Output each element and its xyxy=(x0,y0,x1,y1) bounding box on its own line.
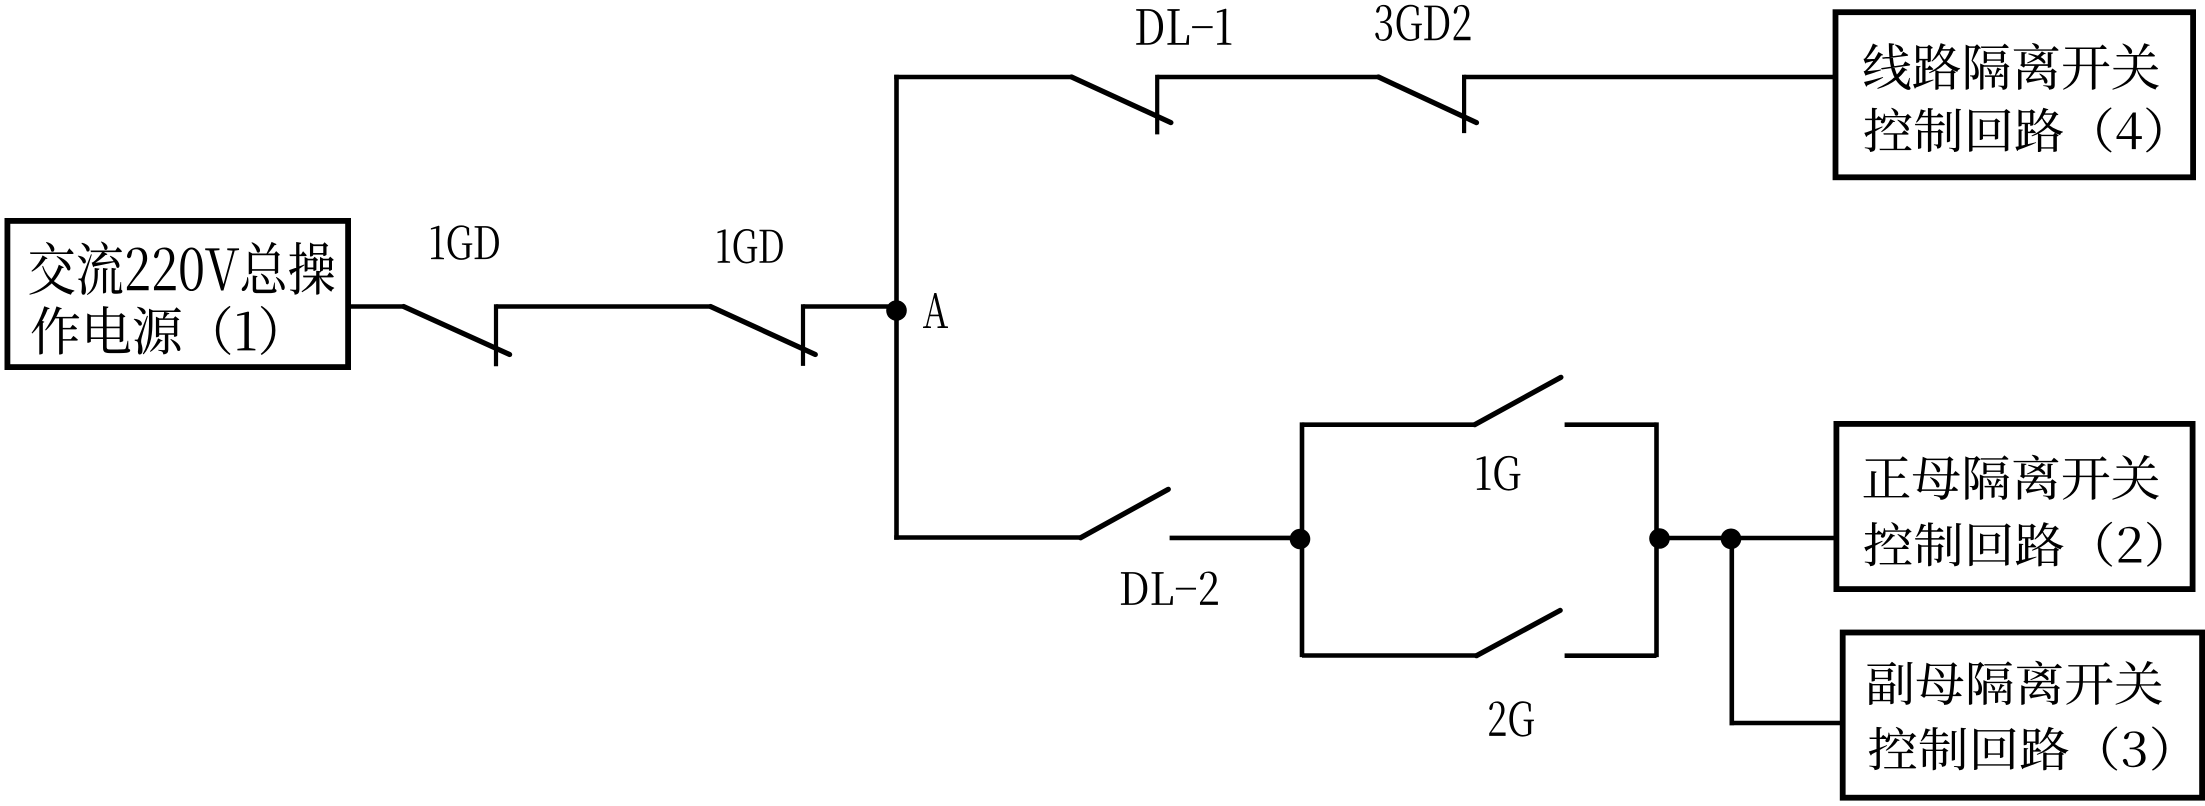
box: line isolator switch control circuit (4) xyxy=(1836,12,2194,177)
node A junction dot xyxy=(886,300,907,321)
text: box2 label line1 "正母隔离开关" xyxy=(1864,455,2159,500)
switch 1GD (first) contact tick xyxy=(494,304,498,366)
wire from DL-1 to switch 3GD2 xyxy=(1157,75,1379,80)
text: value label 1GD (second) "1GD" xyxy=(717,229,782,263)
circuit-breaker contact DL-1 tick xyxy=(1155,75,1159,135)
wire between the two 1GD switches xyxy=(496,304,712,309)
wire from 3GD2 to box (4) xyxy=(1464,75,1835,80)
wire into box (2) xyxy=(1731,536,1835,541)
vertical wire down to box (3) feed xyxy=(1730,539,1735,726)
switch 1GD (second) blade xyxy=(711,307,816,355)
box: positive bus isolator switch control circuit (2) xyxy=(1836,424,2192,589)
text: box4 label line1 "线路隔离开关" xyxy=(1863,43,2158,90)
circuit-breaker contact DL-2 blade xyxy=(1081,489,1169,538)
parallel group top wire (left of 1G) xyxy=(1302,422,1476,427)
wire from DL-2 to parallel group xyxy=(1170,536,1302,541)
text: value label 1G "1G" xyxy=(1477,456,1521,491)
text: value label DL-2 "DL−2" xyxy=(1121,571,1218,604)
lower branch wire from bus to switch DL-2 xyxy=(894,535,1081,540)
text: value label 2G "2G" xyxy=(1489,701,1534,736)
wire into box (3) xyxy=(1730,721,1844,726)
switch 1G blade xyxy=(1475,377,1561,424)
branch junction dot before box (2) xyxy=(1721,529,1742,550)
junction dot at parallel group right xyxy=(1649,528,1670,549)
parallel group bottom wire (right of 2G) xyxy=(1565,653,1657,658)
text: box1 label line1 "交流220V总操" xyxy=(29,241,334,295)
vertical bus wire through node A xyxy=(894,75,899,540)
junction dot at parallel group left xyxy=(1290,529,1311,550)
text: box3 label line2 "控制回路（3）" xyxy=(1869,726,2167,770)
wire from second 1GD switch to node A xyxy=(803,304,897,309)
text: box4 label line2 "控制回路（4）" xyxy=(1864,107,2160,152)
box: AC 220V main operating supply (1) xyxy=(7,221,348,367)
parallel group bottom wire (left of 2G) xyxy=(1302,653,1478,658)
top branch wire from bus to switch DL-1 xyxy=(894,75,1072,80)
parallel group right vertical wire xyxy=(1654,422,1659,657)
box: standby bus isolator switch control circuit (3) xyxy=(1843,633,2202,798)
text: value label 3GD2 "3GD2" xyxy=(1375,5,1470,41)
switch 1GD (first) blade xyxy=(404,307,510,355)
text: box2 label line2 "控制回路（2）" xyxy=(1864,522,2161,567)
text: value label 1GD (first) "1GD" xyxy=(431,225,499,259)
parallel group left vertical wire xyxy=(1300,422,1305,657)
wire from parallel group to branch junction xyxy=(1657,536,1732,541)
wire from box1 to switch 1GD xyxy=(351,304,405,309)
circuit-breaker contact DL-1 blade xyxy=(1072,77,1171,123)
switch 3GD2 tick xyxy=(1462,75,1466,133)
text: node label A "A" xyxy=(923,293,948,328)
text: box3 label line1 "副母隔离开关" xyxy=(1867,661,2162,705)
switch 1GD (second) contact tick xyxy=(801,304,805,366)
text: box1 label line2 "作电源（1）" xyxy=(32,306,276,355)
parallel group top wire (right of 1G) xyxy=(1565,422,1657,427)
text: value label DL-1 "DL−1" xyxy=(1136,9,1231,45)
switch 2G blade xyxy=(1477,610,1561,655)
switch 3GD2 blade xyxy=(1379,77,1477,123)
